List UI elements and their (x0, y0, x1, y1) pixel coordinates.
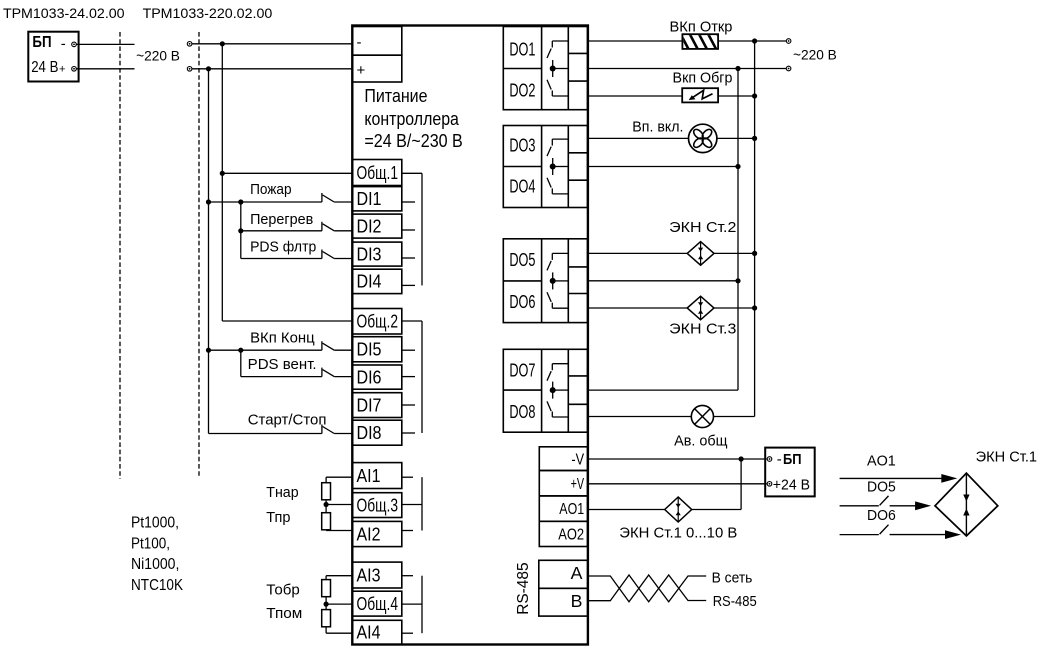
svg-text:DO5: DO5 (509, 250, 535, 270)
svg-text:RS-485: RS-485 (713, 593, 757, 610)
wire and switch DI3 PDS fltr (241, 258, 322, 260)
svg-text:DI2: DI2 (357, 216, 382, 236)
svg-text:+V: +V (571, 476, 585, 493)
svg-text:AO2: AO2 (558, 527, 584, 544)
label sensor types Pt1000 list (131, 515, 183, 594)
node bus A top (752, 38, 757, 43)
wire DO5/6 common to bus B (588, 280, 739, 282)
svg-text:DO1: DO1 (509, 40, 535, 60)
svg-text:Тнар: Тнар (266, 484, 298, 501)
terminal cell DI2 (352, 214, 402, 238)
svg-text:AO1: AO1 (559, 501, 584, 518)
svg-text:AI4: AI4 (357, 623, 381, 643)
svg-text:DO5: DO5 (867, 480, 896, 496)
vertical branch bus DI6 (240, 350, 242, 376)
terminal cell + (352, 55, 402, 82)
internal stub Obsh.2 with bracket DI5-DI8 (402, 320, 422, 322)
terminal cell DI6 (352, 365, 402, 389)
svg-text:-: - (777, 451, 782, 468)
stub DI5 (402, 349, 415, 351)
svg-text:RS-485: RS-485 (515, 562, 532, 614)
terminal cell -V (539, 447, 587, 471)
vertical wire AO1 return to -V (740, 459, 742, 510)
stub AI3 (402, 575, 413, 577)
svg-text:DO6: DO6 (867, 508, 896, 524)
svg-text:DI3: DI3 (357, 244, 382, 264)
wire Obsh.2 common input (222, 320, 352, 322)
vertical branch bus DI2/DI3 (240, 202, 242, 259)
wire VKp Otkr to terminal (718, 40, 786, 42)
wire and switch DI2 Peregrev (238, 228, 243, 233)
terminal cell Obsh.2 (352, 309, 402, 335)
terminal cell - (352, 27, 402, 56)
svg-text:DO4: DO4 (509, 177, 535, 197)
relay output block DO5/DO6 (503, 239, 587, 323)
wire lamp to bus A corner (714, 416, 755, 418)
terminal cell DI3 (352, 242, 402, 266)
svg-text:DI4: DI4 (357, 272, 382, 292)
terminal cell AI3 (352, 562, 402, 588)
svg-text:ВКп Откр: ВКп Откр (670, 19, 733, 36)
heater Vkp Obgr box with arrow (682, 88, 718, 102)
terminal cell AO1 (539, 496, 587, 521)
svg-text:Тпом: Тпом (266, 605, 302, 622)
stub DI8 (402, 432, 415, 434)
dashed separator line 1 (119, 32, 121, 479)
node -V/AO1 junction (739, 456, 744, 461)
vertical bus B right (737, 69, 739, 391)
svg-text:DI7: DI7 (357, 395, 382, 415)
svg-text:Pt100,: Pt100, (131, 535, 170, 552)
twisted pair RS-485 wire A (588, 575, 707, 602)
stub DI6 (402, 376, 415, 378)
svg-text:+24 В: +24 В (773, 476, 810, 493)
stub DI4 (402, 284, 415, 286)
stub DI7 (402, 404, 415, 406)
svg-text:Старт/Стоп: Старт/Стоп (248, 412, 327, 429)
terminal cell Obsh.4 (352, 591, 402, 616)
stub AI4 (402, 632, 413, 634)
svg-text:Вп. вкл.: Вп. вкл. (632, 119, 683, 136)
svg-text:AI2: AI2 (357, 524, 381, 544)
terminal ~220V line 1 (786, 39, 791, 44)
terminal cell AI4 (352, 620, 402, 644)
terminal cell DI5 (352, 337, 402, 362)
label Pitanie kontrollera (364, 86, 462, 151)
svg-text:DI8: DI8 (357, 423, 382, 443)
terminal cell AI2 (352, 521, 402, 546)
terminal cell B (539, 588, 588, 616)
wire +V to BP24 (588, 483, 767, 485)
svg-text:ВКп Конц: ВКп Конц (250, 330, 315, 347)
svg-text:+: + (357, 62, 366, 79)
wire DO6 with switch and arrow (840, 534, 879, 536)
wire DO2 contact to Vkp Obgr (588, 95, 683, 97)
controller main block outline (352, 26, 588, 645)
node on L2 wire (206, 66, 211, 71)
wire Vkp Obgr to bus A (718, 95, 755, 97)
terminal cell Obsh.1 (352, 160, 402, 186)
wire AO1 through EKN St.1 (588, 509, 665, 511)
svg-text:БП: БП (32, 34, 51, 51)
svg-text:B: B (571, 591, 583, 611)
wire BP minus output (76, 43, 134, 45)
internal stub Obsh.3 with bracket AI1-AI2 (402, 504, 422, 506)
wire and switch DI8 Start/Stop (209, 433, 322, 435)
power supply BP 24V box (28, 32, 78, 82)
vertical bus from L1 node (221, 44, 223, 321)
terminal cell Obsh.3 (352, 493, 402, 518)
stub AI1 (402, 476, 413, 478)
fan symbol Vp. vkl. (689, 124, 717, 152)
internal stub Obsh.1 with bracket DI1-DI4 (402, 172, 422, 174)
dashed separator line 2 (198, 32, 200, 477)
terminal L2 ~220V (187, 67, 192, 72)
svg-text:+: + (59, 64, 65, 76)
svg-text:PDS флтр: PDS флтр (250, 239, 316, 256)
wire and switch DI1 Pozhar (206, 199, 211, 204)
svg-text:DI1: DI1 (357, 189, 382, 209)
svg-text:DO2: DO2 (509, 81, 535, 101)
power supply BP 24V right box (765, 448, 815, 497)
svg-text:Pt1000,: Pt1000, (131, 515, 179, 532)
svg-text:PDS вент.: PDS вент. (248, 356, 317, 373)
wire EKN St.2 to bus A (714, 252, 755, 254)
EKN St.1 large diamond (935, 473, 998, 536)
wire DO5 contact to EKN St.2 (588, 252, 688, 254)
node bus B top (735, 66, 740, 71)
wire DO5 with switch and arrow (840, 505, 879, 507)
sensor chain Tobr/Tpom on AI3/Obsh.4/AI4 (326, 575, 352, 577)
stub DI1 (402, 201, 415, 203)
relay output block DO7/DO8 (503, 349, 587, 432)
wire DO6 contact to EKN St.3 (588, 307, 688, 309)
EKN St.3 diamond (687, 296, 714, 320)
svg-text:-: - (357, 34, 362, 51)
svg-text:DI6: DI6 (357, 367, 382, 387)
svg-text:ЭКН Ст.1 0...10 В: ЭКН Ст.1 0...10 В (619, 525, 737, 542)
wire and switch DI6 PDS vent (241, 376, 322, 378)
wire DO1/2 common to terminal (588, 68, 787, 70)
wire DO1 contact to VKp Otkr (588, 40, 683, 42)
wire fan to bus A (717, 137, 755, 139)
lamp Av. obsh (691, 405, 713, 427)
svg-text:NTC10K: NTC10K (131, 577, 183, 594)
svg-text:DO7: DO7 (509, 360, 535, 380)
svg-text:AI3: AI3 (357, 565, 381, 585)
twisted pair RS-485 wire B (588, 575, 707, 602)
wire DO8 contact to lamp (588, 416, 692, 418)
svg-text:Пожар: Пожар (250, 181, 292, 198)
actuator VKp Otkr hatched box (680, 33, 726, 50)
terminal ~220V line 2 (786, 66, 791, 71)
svg-text:БП: БП (783, 451, 802, 468)
svg-text:24 В: 24 В (31, 59, 58, 76)
svg-text:-: - (61, 36, 66, 53)
svg-text:ТРМ1033-220.02.00: ТРМ1033-220.02.00 (143, 5, 273, 21)
svg-text:DI5: DI5 (357, 340, 382, 360)
wire DO7/8 common to bus B corner (588, 389, 739, 391)
svg-text:DO3: DO3 (509, 136, 535, 156)
vertical bus from L2 node (208, 69, 210, 434)
terminal cell DI1 (352, 187, 402, 211)
svg-text:Ni1000,: Ni1000, (131, 556, 179, 573)
svg-text:ЭКН Ст.1: ЭКН Ст.1 (976, 449, 1037, 465)
svg-text:В сеть: В сеть (712, 570, 753, 587)
wire EKN St.3 to bus A (714, 307, 755, 309)
wire L2 to plus terminal (192, 68, 352, 70)
svg-text:Общ.1: Общ.1 (357, 163, 399, 183)
node on L1 wire (220, 41, 225, 46)
svg-text:=24 В/~230 В: =24 В/~230 В (364, 131, 462, 151)
svg-text:DO6: DO6 (509, 292, 535, 312)
wire Obsh.1 common input (220, 171, 225, 176)
svg-text:Тобр: Тобр (266, 582, 300, 599)
wire DO3/4 common to bus B (588, 166, 739, 168)
svg-text:Питание: Питание (364, 86, 427, 106)
wire L1 to minus terminal (192, 43, 352, 45)
svg-text:ЭКН Ст.3: ЭКН Ст.3 (669, 320, 736, 337)
wire EKN St.1 to junction (692, 509, 742, 511)
terminal cell AO2 (539, 521, 587, 546)
relay output block DO1/DO2 (503, 27, 587, 110)
EKN St.1 diamond (665, 497, 692, 522)
stub AI2 (402, 530, 413, 532)
terminal cell AI1 (352, 463, 402, 489)
svg-text:~220 В: ~220 В (793, 47, 837, 63)
svg-text:Перегрев: Перегрев (250, 211, 313, 228)
terminal cell DI8 (352, 420, 402, 445)
svg-text:ЭКН Ст.2: ЭКН Ст.2 (669, 219, 736, 236)
terminal cell A (539, 560, 588, 588)
wire -V to BP24 (588, 458, 767, 460)
svg-text:Общ.4: Общ.4 (357, 594, 399, 614)
terminal cell +V (539, 471, 587, 496)
stub DI3 (402, 257, 415, 259)
vertical bus A right (754, 41, 756, 417)
svg-text:ТРМ1033-24.02.00: ТРМ1033-24.02.00 (3, 5, 125, 21)
terminal L1 ~220V (187, 42, 192, 47)
wire and switch DI5 VKp Konts (206, 348, 211, 353)
terminal cell DI7 (352, 393, 402, 418)
relay output block DO3/DO4 (503, 126, 587, 208)
svg-text:AI1: AI1 (357, 466, 381, 486)
svg-text:Вкп Обгр: Вкп Обгр (673, 70, 733, 87)
svg-text:Тпр: Тпр (266, 509, 290, 526)
svg-text:AO1: AO1 (867, 453, 896, 469)
svg-text:Общ.2: Общ.2 (357, 312, 399, 332)
stub DI2 (402, 229, 415, 231)
EKN St.2 diamond (687, 242, 714, 266)
svg-text:контроллера: контроллера (364, 109, 459, 129)
wire DO3 contact to fan (588, 137, 689, 139)
svg-text:DO8: DO8 (509, 402, 535, 422)
svg-text:Ав. общ: Ав. общ (674, 433, 727, 450)
svg-text:A: A (571, 563, 583, 583)
svg-text:~220 В: ~220 В (136, 48, 180, 64)
internal stub Obsh.4 with bracket AI3-AI4 (402, 603, 422, 605)
terminal cell DI4 (352, 269, 402, 293)
sensor chain Tnar/Tpr on AI1/Obsh.3/AI2 (326, 476, 352, 478)
wire BP plus output (76, 68, 134, 70)
svg-text:-V: -V (571, 451, 584, 468)
arrow AO1 to EKN St.1 (840, 477, 943, 479)
svg-text:Общ.3: Общ.3 (357, 495, 399, 515)
